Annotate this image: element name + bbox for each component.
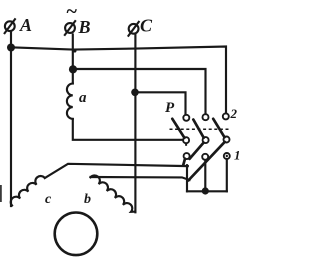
svg-text:P: P bbox=[165, 100, 175, 116]
svg-text:~: ~ bbox=[67, 1, 78, 23]
svg-text:a: a bbox=[79, 90, 87, 106]
svg-text:B: B bbox=[78, 17, 91, 37]
svg-text:2: 2 bbox=[230, 106, 238, 121]
svg-text:b: b bbox=[84, 192, 91, 207]
svg-text:1: 1 bbox=[234, 148, 241, 163]
svg-text:A: A bbox=[19, 15, 32, 35]
svg-text:c: c bbox=[45, 192, 52, 207]
svg-text:C: C bbox=[140, 16, 153, 36]
